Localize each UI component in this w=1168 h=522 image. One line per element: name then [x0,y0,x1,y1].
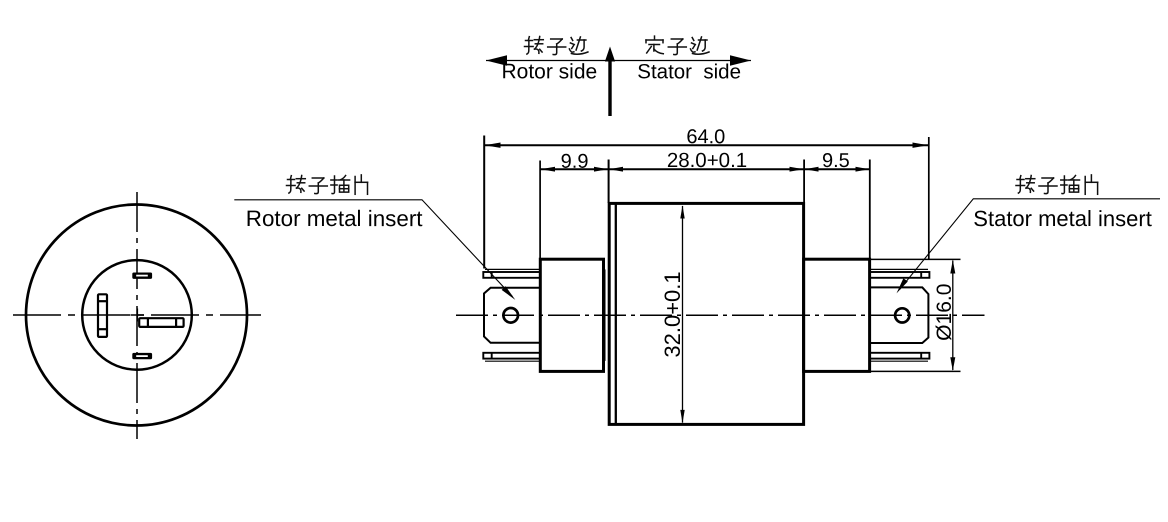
left top prong [483,269,540,277]
right cap rect [804,259,870,371]
left arrowhead [486,55,507,66]
bottom insert slot [132,353,152,359]
left plate hole [503,308,518,323]
svg-text:Rotor side: Rotor side [501,60,597,83]
vertical arrow [608,61,611,116]
arrowhead 32.0 top [680,205,684,218]
svg-text:28.0+0.1: 28.0+0.1 [667,149,747,172]
label 转子边 [525,37,588,55]
ext line at body left edge [608,160,610,204]
svg-text:32.0+0.1: 32.0+0.1 [660,271,685,357]
arrowhead 64.0 right [913,143,929,148]
outer circle body [26,205,247,426]
dim line 64.0 [484,144,929,146]
svg-text:64.0: 64.0 [686,126,725,148]
arrowheads row2 [541,167,556,172]
main body rect [609,203,803,424]
leader line right [900,199,1161,290]
main horizontal centerline [456,314,985,316]
ext line right 64.0 [928,137,930,259]
svg-text:9.5: 9.5 [822,150,850,172]
right plate hole [895,308,909,322]
arrowhead D16 bottom [950,357,955,371]
svg-text:Rotor metal insert: Rotor metal insert [246,206,423,231]
dim line 32.0 [682,206,684,423]
center cross [131,309,145,322]
horizontal centerline [13,314,261,316]
ext line 9.9 left [539,161,541,259]
svg-text:Stator side: Stator side [637,60,741,83]
ext line top [871,258,961,260]
left cap rect [540,259,603,371]
right bottom prong [870,353,930,361]
label 定子边 [646,36,709,55]
dim line row2 [540,168,870,170]
svg-text:Stator metal insert: Stator metal insert [973,206,1152,231]
leader arrowhead left [502,286,516,300]
arrowhead 32.0 bottom [680,410,684,423]
vertical centerline [136,192,138,439]
left insert plate [484,288,540,343]
right arrowhead [730,55,751,66]
ext line at body right edge [803,160,805,204]
left bottom prong [483,353,540,361]
leader line left [234,200,512,297]
arrowhead D16 top [950,260,955,274]
leader arrowhead right [897,278,908,293]
inner circle cap [82,260,192,370]
arrowhead 64.0 left [485,143,501,148]
svg-text:9.9: 9.9 [561,151,589,173]
top insert slot [132,273,152,279]
ext line 9.5 right [869,160,871,259]
inner left edge line [615,203,617,424]
label 转子插片 left [287,175,368,194]
svg-text:Ø16.0: Ø16.0 [933,284,956,341]
dim line [952,261,954,371]
right horizontal insert slot [139,318,183,327]
label 转子插片 right [1016,175,1098,194]
hidden line between cap and body [604,269,606,361]
right top prong [870,269,930,277]
left vertical insert slot [98,294,107,337]
horizontal arrow line [486,60,751,62]
right insert plate [870,287,929,343]
ext line left 64.0 [483,136,485,269]
ext line bottom [871,370,961,372]
